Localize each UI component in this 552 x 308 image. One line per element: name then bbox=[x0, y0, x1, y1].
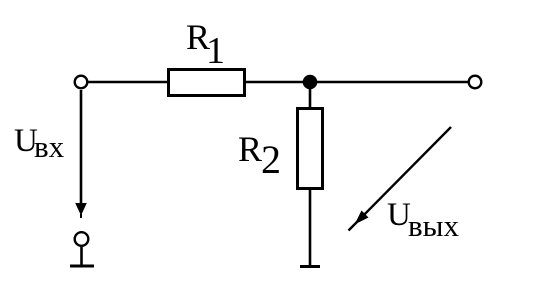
svg-text:R: R bbox=[238, 129, 262, 169]
svg-text:2: 2 bbox=[261, 137, 281, 182]
svg-text:вых: вых bbox=[408, 208, 459, 243]
svg-text:вх: вх bbox=[34, 129, 65, 164]
svg-text:1: 1 bbox=[206, 30, 225, 72]
